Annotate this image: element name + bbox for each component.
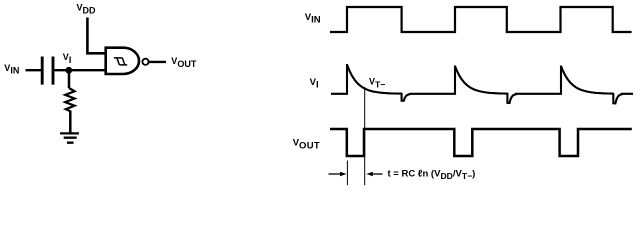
wire bubble to VOUT (149, 61, 166, 63)
resistor R1 (65, 88, 74, 111)
capacitor C1 (42, 57, 53, 85)
wire VIN waveform (330, 7, 632, 32)
gate U1 Schmitt-trigger NAND body (106, 48, 139, 74)
dimension line left (346, 161, 348, 186)
svg-text:t = RC ℓn (VDD/VT−): t = RC ℓn (VDD/VT−) (388, 169, 476, 182)
wire VI waveform (331, 65, 633, 103)
wire resistor to ground (69, 111, 72, 134)
dimension arrow left (329, 173, 342, 175)
wire node VI to gate input (69, 69, 105, 71)
wire capacitor to node VI (55, 69, 70, 71)
node VT- threshold marker line (364, 87, 366, 185)
output inversion bubble of U1 (142, 59, 148, 65)
dimension arrow right (371, 173, 383, 175)
wire node VI to resistor (68, 70, 71, 88)
wire VDD to gate input (87, 18, 105, 54)
node VI junction dot (65, 67, 72, 74)
ground (60, 133, 79, 142)
wire VOUT waveform (330, 129, 632, 156)
wire VIN to capacitor (26, 69, 42, 71)
hysteresis symbol inside U1 (114, 58, 127, 65)
